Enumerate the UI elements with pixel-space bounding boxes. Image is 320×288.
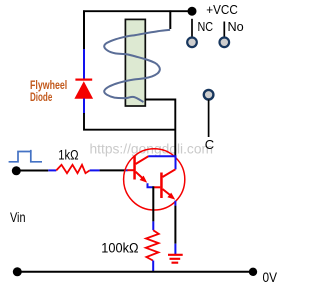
- input pulse symbol: [9, 150, 42, 162]
- wire diode bottom to collector node: [84, 113, 175, 130]
- flywheel diode D1 triangle: [74, 81, 93, 99]
- svg-text:0V: 0V: [263, 269, 278, 285]
- wire relay coil top lead vertical: [169, 10, 171, 29]
- relay K1 bobbin core: [125, 19, 145, 106]
- transistor Q1b collector stroke: [163, 169, 176, 177]
- wire relay coil bottom lead: [145, 99, 175, 157]
- transistor Q1 darlington envelope circle: [124, 149, 185, 210]
- svg-text:Diode: Diode: [30, 90, 53, 104]
- wire base node down black: [152, 186, 154, 221]
- svg-text:100kΩ: 100kΩ: [101, 240, 138, 255]
- node base entry blue dot: [126, 169, 128, 171]
- flywheel diode D1 cathode bar: [75, 79, 92, 81]
- wire blue collector link: [148, 156, 175, 169]
- node Vin input terminal: [12, 166, 21, 175]
- contact C terminal: [204, 90, 214, 100]
- svg-text:+VCC: +VCC: [206, 2, 238, 17]
- node bottom left terminal: [13, 267, 22, 276]
- transistor Q1a emitter arrowhead: [140, 176, 148, 183]
- wire blue R2 bottom lead: [152, 261, 154, 273]
- resistor R1 1k zigzag: [56, 165, 89, 173]
- wire blue R1 left lead: [48, 169, 56, 171]
- wire blue R1 right lead: [90, 169, 100, 171]
- transistor Q1a base bar: [133, 156, 136, 180]
- transistor Q1b emitter stroke: [163, 189, 171, 195]
- wire blue below emitter: [174, 201, 176, 206]
- transistor Q1b base lead: [153, 186, 160, 188]
- wire left vertical upper (black): [83, 10, 85, 49]
- node +VCC junction: [188, 7, 197, 16]
- ground symbol: [168, 255, 183, 263]
- resistor R2 100k zigzag: [146, 230, 159, 260]
- contact NC terminal: [187, 38, 197, 48]
- wire NC stub: [191, 19, 193, 37]
- svg-text:NC: NC: [198, 19, 214, 34]
- svg-text:Vin: Vin: [10, 210, 26, 225]
- wire R1 to base: [100, 169, 126, 171]
- wire blue emitter to base link: [148, 183, 154, 187]
- contact No terminal: [220, 38, 230, 48]
- wire blue ground stem: [174, 244, 176, 255]
- transistor Q1a emitter stroke: [136, 172, 144, 179]
- wire input to R1: [16, 170, 48, 172]
- transistor Q1b base bar: [160, 173, 163, 199]
- transistor Q1a collector stroke: [136, 156, 149, 164]
- transistor Q1b emitter arrowhead: [167, 193, 175, 200]
- wire blue R2 top lead: [152, 221, 154, 230]
- wire top rail +VCC: [83, 10, 192, 12]
- wire No stub: [223, 22, 225, 37]
- wire blue below diode: [83, 99, 85, 115]
- svg-text:C: C: [205, 137, 214, 152]
- wire C stub: [208, 100, 210, 137]
- svg-text:No: No: [228, 19, 244, 34]
- wire emitter down black: [174, 206, 176, 244]
- wire bottom rail 0V: [17, 271, 253, 273]
- node 0V terminal: [249, 268, 257, 276]
- relay K1 coil winding: [104, 30, 170, 102]
- transistor Q1a base lead: [127, 169, 133, 171]
- wire left vertical blue above diode: [83, 49, 85, 79]
- svg-text:1kΩ: 1kΩ: [58, 148, 78, 163]
